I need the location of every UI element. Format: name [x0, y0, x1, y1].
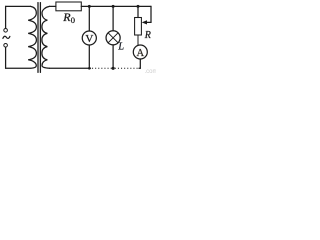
- svg-text:V: V: [85, 33, 93, 45]
- wire secondary bottom solid: [50, 67, 91, 69]
- node dot top at rheostat branch: [137, 5, 140, 8]
- transformer core line 1: [37, 3, 39, 73]
- wire bottom-left horizontal: [6, 67, 31, 69]
- wire rheostat to ammeter: [137, 35, 139, 45]
- resistor R0: [56, 2, 81, 11]
- lamp cross: [108, 33, 118, 43]
- voltmeter V circle: [82, 31, 96, 45]
- wire R0 to right corner: [81, 5, 151, 7]
- wire right edge down: [150, 6, 152, 22]
- svg-text:R: R: [144, 30, 151, 41]
- transformer core line 2: [39, 3, 41, 73]
- node dot top at lamp branch: [112, 5, 115, 8]
- rheostat R box: [135, 18, 142, 36]
- node dot top at V branch: [88, 5, 91, 8]
- wire secondary top to R0: [50, 5, 56, 7]
- svg-text:.com: .com: [145, 69, 157, 75]
- wire V branch upper: [88, 6, 90, 31]
- wire lamp branch lower: [112, 45, 114, 68]
- transformer primary coil: [28, 6, 36, 68]
- wire rheostat top lead: [137, 6, 139, 17]
- rheostat slider arrowhead: [142, 20, 147, 24]
- AC source terminal top: [4, 29, 8, 33]
- svg-text:A: A: [137, 48, 145, 59]
- wire top-left horizontal: [6, 5, 31, 7]
- wire bottom dashed segment 1: [92, 67, 112, 69]
- wire lamp branch upper: [112, 6, 114, 30]
- node dot bottom at V branch: [88, 67, 91, 70]
- svg-text:L: L: [117, 42, 124, 53]
- wire V branch lower: [88, 45, 90, 68]
- AC source tilde: [3, 36, 10, 38]
- rheostat slider arm wire: [146, 21, 151, 23]
- wire left vertical upper: [5, 6, 7, 28]
- wire bottom dashed segment 2: [115, 67, 139, 69]
- svg-text:0: 0: [71, 15, 75, 25]
- transformer secondary coil: [42, 6, 50, 68]
- AC source terminal bottom: [4, 44, 8, 48]
- lamp L circle: [106, 31, 120, 45]
- ammeter A circle: [133, 45, 147, 59]
- node dot bottom at lamp branch: [112, 67, 115, 70]
- wire left vertical lower: [5, 47, 7, 68]
- wire ammeter bottom corner: [139, 67, 140, 69]
- wire ammeter lower: [139, 59, 141, 68]
